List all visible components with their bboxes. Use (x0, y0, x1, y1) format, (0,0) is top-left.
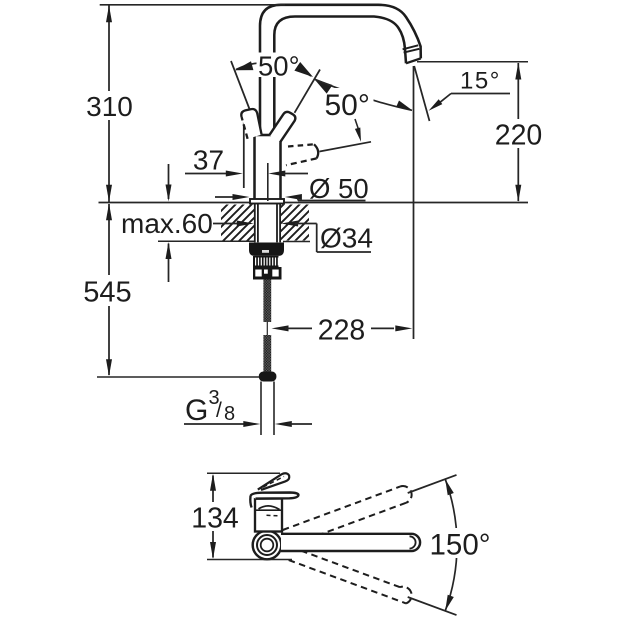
svg-text:37: 37 (193, 145, 224, 176)
svg-text:Ø 50: Ø 50 (309, 173, 369, 204)
svg-text:50°: 50° (325, 89, 370, 122)
svg-text:8: 8 (224, 403, 235, 425)
svg-text:310: 310 (86, 91, 133, 122)
svg-text:50°: 50° (258, 51, 300, 82)
svg-text:15°: 15° (460, 68, 501, 95)
svg-text:134: 134 (191, 503, 239, 535)
svg-text:Ø34: Ø34 (320, 223, 373, 254)
svg-text:545: 545 (83, 277, 131, 309)
svg-text:220: 220 (495, 120, 543, 152)
svg-text:max.60: max.60 (121, 208, 213, 239)
svg-text:G: G (185, 394, 208, 427)
svg-text:228: 228 (318, 315, 366, 347)
svg-text:/: / (216, 399, 222, 422)
svg-text:150°: 150° (430, 529, 491, 562)
